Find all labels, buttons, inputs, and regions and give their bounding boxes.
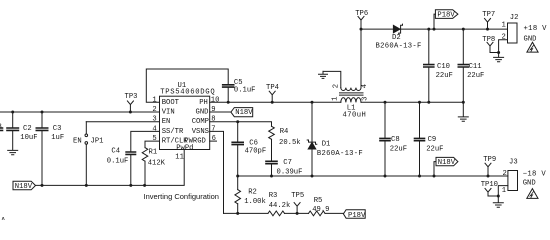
- svg-text:PH: PH: [199, 99, 208, 107]
- svg-text:1: 1: [502, 187, 506, 195]
- svg-text:C9: C9: [428, 136, 437, 144]
- svg-text:+18 V: +18 V: [524, 25, 548, 33]
- test point TP7: [485, 19, 491, 30]
- resistor R4: [269, 126, 275, 139]
- node J2 ground junction: [497, 51, 500, 54]
- test point TP6: [358, 16, 364, 20]
- warning triangle (J3): [527, 189, 538, 199]
- svg-text:4: 4: [152, 125, 156, 133]
- svg-text:R5: R5: [314, 197, 323, 205]
- svg-text:0.1uF: 0.1uF: [107, 158, 129, 166]
- svg-text:SS/TR: SS/TR: [162, 128, 184, 136]
- net flag N18V (bottom left): [13, 181, 36, 190]
- node top rail junctions: [360, 28, 363, 31]
- label pin names: [162, 99, 189, 146]
- resistor R5: [309, 211, 325, 216]
- test point TP10: [485, 189, 498, 197]
- svg-text:22uF: 22uF: [436, 72, 453, 80]
- svg-text:R2: R2: [248, 188, 257, 196]
- svg-text:Inverting Configuration: Inverting Configuration: [144, 192, 219, 201]
- svg-text:VIN: VIN: [162, 109, 175, 117]
- diode D1 B260A-13-F: [307, 102, 317, 176]
- svg-text:49.9: 49.9: [312, 206, 329, 214]
- svg-text:6: 6: [212, 135, 216, 143]
- node N18V left rail junctions: [41, 184, 44, 187]
- diode D2 B260A-13-F: [393, 24, 402, 34]
- wire N18V bottom-left rail to PowerPad: [36, 150, 185, 186]
- node COMP junction: [236, 120, 239, 123]
- node PH rail junctions: [227, 101, 230, 104]
- svg-text:0.39uF: 0.39uF: [277, 168, 303, 176]
- svg-text:TP7: TP7: [482, 11, 495, 19]
- svg-text:11: 11: [175, 154, 184, 162]
- svg-text:P18V: P18V: [348, 212, 366, 220]
- svg-text:8: 8: [0, 124, 2, 132]
- test point TP8: [487, 42, 499, 52]
- inductor L1 470uH (coupled): [323, 20, 363, 102]
- svg-text:VSNS: VSNS: [192, 128, 209, 136]
- svg-text:7: 7: [211, 125, 215, 133]
- svg-text:1uF: 1uF: [51, 134, 64, 142]
- svg-text:22uF: 22uF: [390, 146, 407, 154]
- svg-text:TP6: TP6: [355, 10, 368, 18]
- resistor R3: [268, 211, 284, 216]
- svg-text:TP3: TP3: [125, 93, 138, 101]
- svg-text:C7: C7: [283, 159, 292, 167]
- svg-text:COMP: COMP: [192, 118, 209, 126]
- svg-text:GND: GND: [523, 180, 536, 188]
- ground (C2): [8, 150, 18, 154]
- svg-text:P18V: P18V: [437, 12, 455, 20]
- net flag N18V (mid right): [434, 157, 458, 176]
- wire EN pin3 to JP1: [86, 121, 159, 123]
- svg-text:2: 2: [503, 170, 507, 178]
- test point TP5: [294, 203, 300, 214]
- svg-text:9: 9: [211, 106, 215, 114]
- svg-text:C3: C3: [53, 125, 62, 133]
- wire J2 pin2: [499, 40, 508, 53]
- svg-text:EN: EN: [162, 118, 171, 126]
- capacitor C11: [458, 29, 468, 102]
- test point TP9: [485, 163, 491, 176]
- wire COMP pin8: [210, 122, 272, 127]
- wire J3 pin1: [498, 186, 508, 196]
- svg-text:R4: R4: [280, 128, 289, 136]
- wire bottom feedback row: [224, 212, 344, 214]
- svg-text:C8: C8: [391, 136, 400, 144]
- resistor R1: [142, 141, 159, 185]
- capacitor C7: [266, 139, 277, 176]
- svg-text:22uF: 22uF: [467, 72, 484, 80]
- net flag P18V (bottom): [343, 210, 365, 219]
- winding 2-4 top: [323, 71, 341, 87]
- svg-text:J2: J2: [510, 14, 519, 22]
- label pin numbers left: [152, 96, 156, 143]
- wire VSNS pin7 down: [210, 131, 224, 213]
- svg-text:D1: D1: [322, 140, 331, 148]
- svg-text:GND: GND: [524, 35, 537, 43]
- op-amp U1 TPS54060DGQ box: [160, 96, 210, 149]
- svg-text:22uF: 22uF: [426, 146, 443, 154]
- svg-text:J3: J3: [509, 159, 518, 167]
- svg-text:JP1: JP1: [91, 138, 104, 146]
- svg-text:N18V: N18V: [438, 159, 456, 167]
- svg-text:10: 10: [211, 96, 220, 104]
- svg-text:C4: C4: [111, 147, 120, 155]
- svg-text:TP4: TP4: [266, 84, 279, 92]
- wire +18V top rail: [361, 28, 508, 30]
- svg-text:R1: R1: [149, 149, 158, 157]
- svg-text:470pF: 470pF: [245, 148, 267, 156]
- svg-text:TP8: TP8: [482, 36, 495, 44]
- svg-text:1: 1: [152, 96, 156, 104]
- test point TP3: [127, 101, 133, 112]
- wire BOOT loop with capacitor C5: [146, 69, 233, 102]
- svg-text:BOOT: BOOT: [162, 99, 180, 107]
- svg-text:B260A-13-F: B260A-13-F: [376, 42, 422, 50]
- capacitor C9: [415, 102, 425, 176]
- svg-text:8: 8: [211, 116, 215, 124]
- svg-text:B260A-13-F: B260A-13-F: [317, 150, 363, 158]
- svg-text:N18V: N18V: [15, 183, 33, 191]
- svg-text:412K: 412K: [148, 159, 166, 167]
- capacitor C8: [380, 102, 390, 176]
- svg-text:5: 5: [152, 135, 156, 143]
- svg-text:10uF: 10uF: [20, 134, 37, 142]
- svg-text:44.2k: 44.2k: [269, 202, 291, 210]
- test point TP4: [269, 91, 275, 102]
- svg-text:TPS54060DGQ: TPS54060DGQ: [160, 89, 215, 97]
- svg-text:C11: C11: [469, 63, 482, 71]
- net flag N18V (pin 9 GND): [210, 108, 253, 117]
- capacitor C1 (cut off at left edge): [0, 128, 3, 130]
- svg-text:D2: D2: [392, 34, 401, 42]
- svg-text:2: 2: [332, 84, 340, 88]
- svg-text:C10: C10: [437, 63, 450, 71]
- ground (J3): [493, 196, 503, 207]
- jumper JP1: [85, 122, 88, 186]
- capacitor C10: [424, 29, 434, 102]
- wire PH pin10 rail: [210, 101, 464, 103]
- svg-text:R3: R3: [269, 192, 278, 200]
- svg-text:C2: C2: [23, 125, 32, 133]
- connector J3: [508, 171, 518, 191]
- svg-text:−18 V: −18 V: [523, 170, 547, 178]
- svg-text:N18V: N18V: [235, 109, 253, 117]
- capacitor C2: [7, 112, 18, 150]
- ground (output mid): [458, 102, 468, 121]
- svg-text:3: 3: [362, 97, 370, 101]
- svg-text:2: 2: [502, 34, 506, 42]
- svg-text:1: 1: [332, 97, 340, 101]
- connector J2: [508, 23, 518, 43]
- svg-text:4: 4: [361, 84, 369, 88]
- svg-text:3: 3: [152, 116, 156, 124]
- wire PWRGD pin6 stub: [210, 140, 217, 142]
- svg-text:C6: C6: [249, 139, 258, 147]
- label L1 pins: [332, 84, 370, 101]
- net flag P18V (top right): [434, 10, 458, 29]
- ground (L1 pin2): [319, 71, 328, 78]
- svg-text:0.1uF: 0.1uF: [234, 86, 256, 94]
- node mid rail junctions: [236, 175, 239, 178]
- svg-text:TP5: TP5: [291, 192, 304, 200]
- resistor R2: [235, 176, 241, 213]
- node VIN rail junctions: [11, 111, 14, 114]
- svg-text:2: 2: [152, 106, 156, 114]
- capacitor C3: [36, 112, 47, 185]
- wire VIN input rail: [0, 111, 160, 113]
- node J3 ground junction: [497, 195, 500, 198]
- svg-text:1.00k: 1.00k: [244, 198, 266, 206]
- svg-text:PwPd: PwPd: [176, 144, 193, 152]
- svg-text:470uH: 470uH: [343, 112, 367, 120]
- svg-text:EN: EN: [73, 138, 82, 146]
- capacitor C6: [232, 122, 243, 176]
- svg-text:TP10: TP10: [481, 181, 498, 189]
- label pin numbers right: [211, 96, 220, 143]
- svg-text:TP9: TP9: [483, 156, 496, 164]
- node bottom row junctions: [236, 212, 239, 215]
- svg-text:1: 1: [502, 22, 506, 30]
- capacitor C4: [126, 131, 159, 185]
- warning triangle (J2): [527, 42, 538, 52]
- ground (J2): [494, 53, 504, 62]
- winding 1-3 bottom: [341, 98, 361, 103]
- svg-text:GND: GND: [196, 109, 209, 117]
- wire N18V mid rail: [238, 175, 508, 177]
- svg-text:A.: A.: [1, 217, 10, 220]
- svg-text:20.5k: 20.5k: [279, 139, 301, 147]
- core: [340, 93, 364, 95]
